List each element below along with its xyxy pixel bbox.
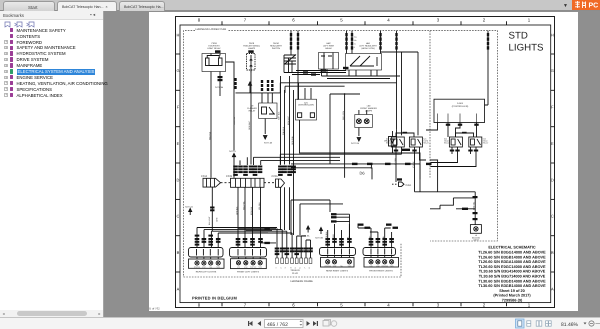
tag bar wire SW16 a bbox=[290, 33, 292, 36]
grid letters right bbox=[551, 33, 554, 292]
wires into K9 bbox=[262, 93, 272, 103]
svg-text:4: 4 bbox=[387, 18, 390, 23]
svg-text:LT BLU: LT BLU bbox=[412, 161, 415, 168]
svg-text:1: 1 bbox=[274, 267, 277, 268]
wire node junction center bbox=[344, 94, 346, 178]
svg-text:D: D bbox=[177, 178, 180, 183]
svg-text:RED-BLK: RED-BLK bbox=[208, 131, 211, 140]
connector C206 bbox=[264, 179, 285, 187]
bottom toolbar bbox=[0, 317, 600, 329]
svg-text:GRN-BLK: GRN-BLK bbox=[235, 206, 238, 215]
headlight switch SW16 contacts bbox=[284, 55, 296, 73]
svg-text:POSITION: POSITION bbox=[194, 267, 200, 269]
svg-text:STD: STD bbox=[509, 31, 528, 42]
svg-text:SWITCH: SWITCH bbox=[272, 47, 281, 50]
svg-text:3: 3 bbox=[437, 302, 440, 307]
svg-text:HARNESS FRAME: HARNESS FRAME bbox=[291, 280, 314, 283]
first page button bbox=[248, 321, 253, 326]
tags above front right connector bbox=[369, 238, 394, 246]
svg-text:(CONTROLLER): (CONTROLLER) bbox=[452, 105, 469, 108]
wire top bus to relay K31 bbox=[381, 52, 419, 135]
harness lower cab dashed boundary bbox=[184, 31, 498, 277]
tag bar K9 pin 3 bbox=[271, 80, 273, 83]
trailer plug pins bbox=[276, 258, 312, 264]
svg-text:2: 2 bbox=[280, 267, 283, 268]
relay K21 bbox=[409, 137, 422, 147]
svg-text:LOW: LOW bbox=[237, 266, 241, 268]
zoom out button bbox=[589, 321, 594, 326]
svg-text:A: A bbox=[551, 287, 554, 292]
svg-text:POSITION: POSITION bbox=[250, 266, 256, 268]
svg-text:31: 31 bbox=[354, 43, 356, 46]
svg-text:GRN: GRN bbox=[216, 217, 219, 222]
svg-text:HIGH: HIGH bbox=[376, 265, 379, 267]
front left lights connector outline bbox=[230, 248, 267, 258]
svg-text:C206: C206 bbox=[272, 175, 279, 178]
svg-text:RELAY: RELAY bbox=[444, 142, 450, 145]
svg-text:BRN-YEL: BRN-YEL bbox=[473, 202, 476, 210]
bridge wire K20-K21 bbox=[396, 133, 414, 137]
tag bar wire HB1 a bbox=[345, 33, 347, 36]
controller A15 box bbox=[434, 99, 485, 122]
svg-text:8: 8 bbox=[198, 302, 201, 307]
svg-text:7: 7 bbox=[244, 18, 247, 23]
svg-text:GRN-BLK: GRN-BLK bbox=[325, 231, 328, 240]
svg-text:TL26.60 S/N E0GC14000 AND ABOV: TL26.60 S/N E0GC14000 AND ABOVE bbox=[478, 265, 546, 269]
tag bar node S4T7.5 wire bbox=[234, 78, 236, 81]
svg-text:B: B bbox=[177, 250, 180, 255]
svg-text:S4T7.2A: S4T7.2A bbox=[185, 206, 193, 209]
svg-text:(CONTROLLER): (CONTROLLER) bbox=[298, 104, 314, 107]
relay K20 bbox=[391, 137, 404, 147]
svg-text:PNK-BLK: PNK-BLK bbox=[282, 126, 285, 135]
svg-text:RELAY: RELAY bbox=[249, 109, 256, 112]
tab bar bbox=[0, 0, 600, 11]
wire color tags mid band bbox=[234, 78, 431, 229]
border frame outer bbox=[176, 17, 555, 308]
tag bar wire HB1 b bbox=[351, 33, 353, 36]
marker lamp pair L60 bbox=[355, 115, 373, 128]
svg-text:YEL: YEL bbox=[347, 236, 350, 240]
svg-text:E: E bbox=[177, 141, 180, 146]
relay labels bbox=[386, 138, 489, 145]
svg-text:TL26.60 S/N B3GA14000 AND ABOV: TL26.60 S/N B3GA14000 AND ABOVE bbox=[478, 260, 546, 264]
svg-text:LAMPS: LAMPS bbox=[365, 109, 373, 112]
svg-text:B: B bbox=[551, 250, 554, 255]
junction bus under HB boxes bbox=[322, 69, 401, 79]
svg-text:TURN: TURN bbox=[390, 265, 394, 267]
tab Start bbox=[3, 1, 55, 11]
svg-text:LT GRN: LT GRN bbox=[394, 158, 397, 165]
tab document 2 bbox=[119, 1, 165, 11]
svg-text:H: H bbox=[177, 33, 180, 38]
svg-text:7: 7 bbox=[244, 302, 247, 307]
svg-text:F: F bbox=[551, 105, 554, 110]
border frame inner bbox=[180, 25, 551, 303]
svg-text:TL26.60 S/N B3GB14000 AND ABOV: TL26.60 S/N B3GB14000 AND ABOVE bbox=[478, 255, 546, 259]
svg-text:GRN-PNK: GRN-PNK bbox=[291, 136, 294, 145]
tool icon 1 bbox=[323, 320, 331, 327]
component labels top row bbox=[207, 42, 377, 50]
front left lights lamp box bbox=[231, 257, 267, 269]
rear right lights connector outline bbox=[320, 248, 356, 256]
relay K22 bbox=[449, 137, 462, 147]
svg-text:3: 3 bbox=[284, 267, 287, 268]
svg-text:A: A bbox=[177, 287, 180, 292]
svg-text:2: 2 bbox=[483, 18, 486, 23]
svg-text:8: 8 bbox=[308, 267, 311, 268]
svg-text:5: 5 bbox=[340, 302, 343, 307]
svg-text:RED: RED bbox=[332, 233, 335, 238]
pin stacks above C205 bbox=[233, 166, 262, 176]
sheet ref arrow node S4T7.05 bbox=[249, 85, 251, 93]
svg-text:S4T7.5: S4T7.5 bbox=[229, 150, 237, 153]
svg-text:STOP: STOP bbox=[333, 265, 337, 267]
riser to node S4T7.5 bbox=[232, 154, 235, 157]
svg-text:POSITION: POSITION bbox=[382, 265, 388, 267]
prev page button bbox=[258, 321, 262, 326]
svg-text:BRN: BRN bbox=[208, 238, 211, 243]
last page button bbox=[313, 321, 318, 326]
tag bar K9 pin 1 bbox=[261, 80, 263, 83]
connector C261 bbox=[392, 182, 404, 186]
svg-text:YEL: YEL bbox=[216, 239, 219, 243]
svg-text:C205: C205 bbox=[226, 175, 233, 178]
sidebar horizontal scrollbar bbox=[0, 310, 103, 317]
ground ref from L60 bbox=[358, 128, 360, 137]
connector C204 bbox=[203, 178, 221, 187]
front right lights connector outline bbox=[363, 248, 396, 256]
wires into rear right bbox=[328, 224, 350, 248]
next page button bbox=[307, 321, 311, 326]
view mode icon 4 bbox=[546, 321, 552, 326]
svg-text:F: F bbox=[177, 105, 180, 110]
bus wires mid right bbox=[330, 94, 360, 164]
svg-text:S4T7.1B: S4T7.1B bbox=[215, 86, 224, 89]
bus below switch bbox=[284, 71, 346, 75]
sidebar toolbar icons bbox=[0, 20, 103, 29]
svg-text:WHT-BLK: WHT-BLK bbox=[278, 111, 281, 120]
wires below connector row bbox=[197, 187, 292, 247]
rear left lights connector outline bbox=[189, 248, 224, 258]
svg-text:TURN: TURN bbox=[216, 267, 220, 269]
svg-text:YEL-BLK: YEL-BLK bbox=[258, 201, 261, 210]
bus stubs into front left lights bbox=[239, 228, 277, 243]
svg-text:TL26.60 S/N B3GG14000 AND ABOV: TL26.60 S/N B3GG14000 AND ABOVE bbox=[478, 251, 546, 255]
bookmarks header bbox=[0, 11, 103, 20]
svg-text:7: 7 bbox=[303, 267, 306, 268]
svg-text:1: 1 bbox=[528, 302, 531, 307]
svg-text:TL30.60 S/N B3G414000 AND ABOV: TL30.60 S/N B3G414000 AND ABOVE bbox=[479, 270, 546, 274]
grid numbers top bbox=[198, 18, 531, 23]
wires below right relays bbox=[396, 147, 476, 225]
left wire bundle drops bbox=[281, 76, 294, 235]
labels mid band bbox=[215, 86, 388, 176]
svg-text:BLK-WHT: BLK-WHT bbox=[208, 216, 211, 225]
svg-text:BRN-BLK: BRN-BLK bbox=[250, 206, 253, 215]
svg-text:(HIGH / LOW): (HIGH / LOW) bbox=[361, 47, 374, 50]
svg-text:RED: RED bbox=[201, 238, 204, 243]
svg-text:S4T7.1B: S4T7.1B bbox=[264, 142, 273, 145]
grid ticks top bbox=[222, 21, 507, 25]
grid side ticks bbox=[176, 54, 555, 272]
svg-text:TAIL: TAIL bbox=[209, 267, 212, 269]
grid ticks bottom bbox=[222, 303, 507, 307]
relay K23 bbox=[469, 137, 482, 147]
diode D9 box bbox=[389, 137, 397, 147]
svg-text:GRN-WHT: GRN-WHT bbox=[248, 120, 251, 130]
tag bar wire node3 bbox=[379, 33, 381, 36]
svg-text:FRONT LEFT LIGHTS: FRONT LEFT LIGHTS bbox=[237, 270, 259, 273]
wire color tags top area bbox=[215, 33, 489, 81]
beacon lamp L5 bbox=[470, 225, 481, 234]
svg-text:C204: C204 bbox=[201, 175, 208, 178]
svg-text:REAR LEFT LIGHTS: REAR LEFT LIGHTS bbox=[196, 270, 217, 273]
tag bar K9 pin 2 bbox=[267, 80, 269, 83]
grid letters left bbox=[176, 33, 179, 292]
svg-text:PLUG: PLUG bbox=[292, 272, 298, 275]
svg-text:LIGHTS: LIGHTS bbox=[509, 43, 545, 54]
wires into front right bbox=[358, 224, 392, 248]
foxit orange logo bbox=[572, 0, 600, 10]
svg-text:FRONT RIGHT LIGHTS: FRONT RIGHT LIGHTS bbox=[369, 269, 393, 272]
svg-text:BRN-WHT: BRN-WHT bbox=[287, 115, 290, 125]
svg-text:5: 5 bbox=[340, 18, 343, 23]
svg-text:PC: PC bbox=[589, 3, 599, 10]
svg-text:TL30.60 S/N B3G714000 AND ABOV: TL30.60 S/N B3G714000 AND ABOVE bbox=[479, 275, 546, 279]
svg-text:RELAY: RELAY bbox=[423, 142, 429, 145]
document page bbox=[149, 12, 578, 311]
wire bundle right harness bbox=[485, 31, 489, 105]
svg-text:D6: D6 bbox=[359, 171, 365, 176]
svg-text:8: 8 bbox=[198, 18, 201, 23]
svg-text:BEAM: BEAM bbox=[326, 47, 332, 50]
bookmark list bbox=[0, 27, 103, 307]
breaker CB78 box bbox=[247, 54, 256, 71]
svg-text:RED-GRN: RED-GRN bbox=[342, 111, 345, 120]
tags above rear right connector bbox=[325, 238, 351, 246]
svg-text:3: 3 bbox=[437, 18, 440, 23]
svg-text:TAIL: TAIL bbox=[340, 265, 343, 267]
bus step lines lower bbox=[291, 200, 343, 235]
rear left lights lamp box bbox=[189, 257, 225, 268]
svg-text:HARNESS LOWER CAB: HARNESS LOWER CAB bbox=[196, 28, 227, 31]
relay CR18 box bbox=[202, 54, 226, 72]
svg-text:S4T7.8B: S4T7.8B bbox=[315, 237, 323, 240]
svg-text:4: 4 bbox=[387, 302, 390, 307]
svg-text:LIGHT: LIGHT bbox=[473, 239, 479, 242]
svg-text:POSITION: POSITION bbox=[325, 265, 331, 267]
tiny pin labels beside HB1 wire bbox=[354, 36, 357, 50]
headlight dimmer HB1 box bbox=[346, 54, 382, 71]
svg-text:2: 2 bbox=[483, 302, 486, 307]
controller A21 box bbox=[296, 99, 317, 120]
svg-text:81.46%: 81.46% bbox=[561, 322, 579, 328]
svg-text:G: G bbox=[176, 68, 179, 73]
svg-text:1: 1 bbox=[528, 18, 531, 23]
rear right lights lamp box bbox=[321, 256, 355, 268]
svg-text:6: 6 bbox=[292, 18, 295, 23]
tag bar wire SW16 b bbox=[297, 33, 299, 36]
tags above front left lamp connector bbox=[236, 238, 263, 246]
svg-text:Sheet 19 of 20: Sheet 19 of 20 bbox=[499, 289, 525, 293]
svg-text:TL30.60 S/N B3GB14000 AND ABOV: TL30.60 S/N B3GB14000 AND ABOVE bbox=[478, 284, 546, 288]
svg-text:GRN: GRN bbox=[194, 238, 197, 243]
harness frame dashed boundary bbox=[184, 243, 402, 277]
svg-text:H: H bbox=[551, 33, 554, 38]
svg-text:ELECTRICAL SCHEMATIC: ELECTRICAL SCHEMATIC bbox=[488, 246, 536, 250]
wire drop from harness to SW16 bbox=[291, 31, 298, 100]
tool icon 2 bbox=[331, 321, 337, 327]
svg-text:5: 5 bbox=[294, 267, 297, 268]
ground ref from K9 bbox=[264, 119, 266, 135]
dropdown arrow top right bbox=[563, 3, 571, 9]
schematic drawn here bbox=[147, 17, 555, 311]
rotated wire color labels bbox=[194, 111, 475, 269]
relay HB2 box bbox=[319, 53, 339, 70]
svg-text:R: R bbox=[354, 46, 356, 49]
view mode icon selected bbox=[516, 319, 525, 328]
flasher relay K9 box bbox=[259, 103, 277, 119]
front right lights lamp box bbox=[364, 256, 399, 268]
svg-text:LIGHT RELAY: LIGHT RELAY bbox=[207, 47, 221, 50]
svg-text:RED-BLK: RED-BLK bbox=[233, 116, 236, 125]
svg-text:REAR RIGHT LIGHTS: REAR RIGHT LIGHTS bbox=[326, 269, 349, 272]
svg-text:C261: C261 bbox=[406, 184, 412, 187]
svg-text:6: 6 bbox=[299, 267, 302, 268]
bus wires into connector stacks bbox=[240, 154, 402, 165]
svg-text:G: G bbox=[551, 68, 554, 73]
wire from CR18 pin 30 bbox=[210, 72, 212, 178]
svg-text:TURN: TURN bbox=[258, 266, 262, 268]
svg-text:4: 4 bbox=[289, 267, 292, 268]
svg-text:56a: 56a bbox=[354, 36, 357, 39]
svg-text:RED-PNK: RED-PNK bbox=[242, 201, 245, 210]
svg-text:RELAY: RELAY bbox=[483, 142, 489, 145]
page number box bbox=[265, 320, 304, 328]
wires into controller A21 bbox=[305, 88, 311, 99]
svg-text:STOP: STOP bbox=[202, 267, 206, 269]
svg-text:56b: 56b bbox=[354, 39, 357, 42]
tags above rear left lamp connector bbox=[195, 207, 221, 246]
zoom slider bbox=[596, 323, 600, 325]
svg-text:S4T7.2A: S4T7.2A bbox=[351, 142, 360, 145]
svg-text:C: C bbox=[551, 214, 554, 219]
svg-text:TURN: TURN bbox=[348, 265, 352, 267]
tab document active bbox=[57, 1, 117, 11]
pin stacks above C206 bbox=[278, 166, 296, 176]
wires controller A15 to relays bbox=[397, 123, 479, 138]
svg-text:PRINTED IN BELGIUM: PRINTED IN BELGIUM bbox=[192, 295, 237, 300]
sidebar panel bbox=[0, 11, 104, 317]
svg-text:LAMPS: LAMPS bbox=[248, 47, 256, 50]
svg-text:7299586 (9): 7299586 (9) bbox=[502, 299, 523, 303]
wire controller A21 to frame bus bbox=[300, 120, 421, 192]
tag bar wire right harness bbox=[487, 33, 489, 36]
wire drops to HB1 bbox=[347, 31, 353, 54]
svg-text:TL30.60 S/N B3GD14000 AND ABOV: TL30.60 S/N B3GD14000 AND ABOVE bbox=[478, 279, 546, 283]
svg-text:(Printed March 2017): (Printed March 2017) bbox=[493, 294, 531, 298]
wire CR18 to node S4T7.5 bbox=[226, 62, 235, 178]
tag bar wire node4 bbox=[395, 33, 397, 36]
connector C205 block bbox=[221, 178, 265, 187]
svg-text:C: C bbox=[177, 214, 180, 219]
view mode icon 3 bbox=[536, 321, 542, 326]
svg-text:E: E bbox=[551, 141, 554, 146]
svg-text:HIGH: HIGH bbox=[244, 266, 247, 268]
svg-text:6: 6 bbox=[292, 302, 295, 307]
wire CB78 down to C205 bbox=[250, 70, 252, 165]
sheet ref arrows mid-low bbox=[189, 209, 323, 235]
wire harness drop node 4 bbox=[396, 31, 398, 130]
view mode icon 2 bbox=[527, 321, 531, 326]
bus into K9 bbox=[236, 83, 397, 99]
trailer plug wires bbox=[277, 228, 311, 258]
svg-text:465 / 762: 465 / 762 bbox=[267, 322, 288, 328]
tags below right relays bbox=[394, 149, 478, 221]
svg-text:465 of 762: 465 of 762 bbox=[149, 307, 160, 311]
trailer plug pin tags bbox=[275, 248, 313, 256]
svg-text:A15 B: A15 B bbox=[457, 102, 463, 105]
grid numbers bottom bbox=[198, 302, 531, 307]
svg-text:RELAY: RELAY bbox=[386, 142, 392, 145]
wire from CR18 pin 87 bbox=[219, 72, 221, 97]
wire drop right of HB1 bbox=[380, 31, 382, 54]
title block text bbox=[478, 246, 546, 303]
svg-text:D: D bbox=[551, 178, 554, 183]
bridge wire K22-K23 bbox=[456, 133, 474, 137]
